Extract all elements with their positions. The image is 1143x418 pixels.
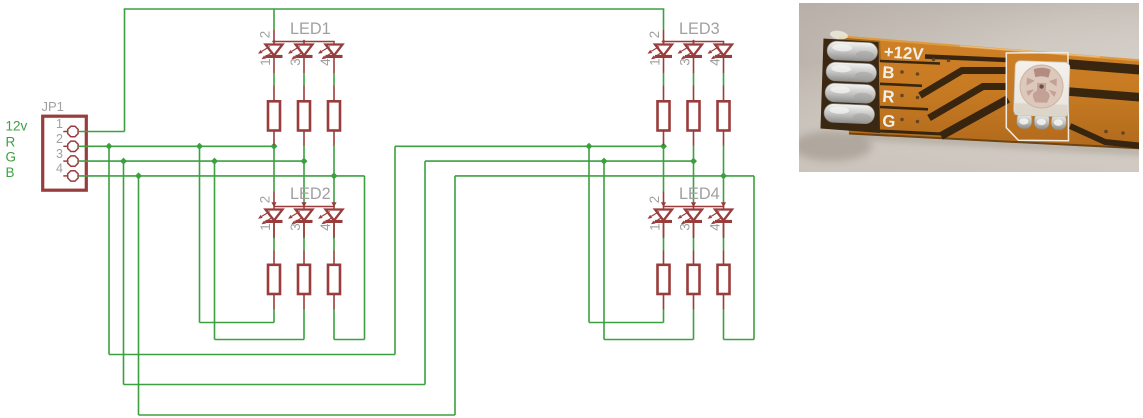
solder pads at left end of strip [821,29,881,133]
wire LED cathode to resistor (top col 304) [303,73,305,86]
wire LED cathode to resistor (top col 723.5) [723,73,725,86]
svg-text:2: 2 [258,196,273,203]
resistor R8 [298,223,310,309]
resistor R11 [688,223,700,309]
SMD 5050 RGB LED package [1013,61,1070,130]
wire LED cathode to resistor (top col 663.5) [663,73,665,86]
resistor R6 [718,86,730,146]
junction (123.5,161.1) [120,158,127,165]
connector JP1 [43,116,87,190]
wire B to LED4 anode bar [723,176,725,207]
svg-text:4: 4 [56,162,63,176]
wire G to LED4 anode bar [693,161,695,206]
resistor R2 [298,86,310,146]
wire LED cathode to resistor (bottom col 723.5) [723,236,725,251]
junction (604,161.1) [601,158,608,165]
svg-text:2: 2 [647,196,662,203]
wire LED cathode to resistor (bottom col 663.5) [663,236,665,251]
svg-text:3: 3 [288,58,303,65]
svg-text:G: G [6,150,17,165]
wire B corner to LED4 resistor [724,176,755,340]
wire B to LED2 anode bar [333,176,335,207]
RGB LED LED4 [647,185,732,238]
svg-text:4: 4 [707,223,722,231]
wire R to LED4 anode [663,146,665,206]
wire R net horizontal from JP1 pin2 [78,145,663,147]
wire 12v net: JP1 pin1 up and across top [78,9,664,132]
svg-text:1: 1 [258,223,273,230]
RGB LED LED2 [258,185,343,238]
svg-text:JP1: JP1 [42,99,64,114]
junction (109,146.3) [106,143,113,150]
svg-text:3: 3 [677,58,692,65]
via holes on strip [900,58,1125,135]
wire LED cathode to resistor (top col 274) [273,73,275,86]
svg-text:2: 2 [56,132,63,146]
pin segment 12v to LED3 anode [663,30,665,42]
wire G net horizontal from JP1 pin3 [78,160,693,162]
svg-text:LED4: LED4 [679,185,720,203]
svg-text:4: 4 [707,58,722,66]
+12V B R G labels on strip [882,42,925,131]
wire G to LED2 anode bar [303,161,305,206]
junction (138.5,175.9) [135,172,142,179]
wire LED cathode to resistor (bottom col 693.5) [693,236,695,251]
svg-text:+12V: +12V [883,42,925,64]
junction (693.5,161.1) [690,158,697,165]
svg-text:R: R [882,87,895,107]
wire G to LED4 resistor [604,161,694,339]
wire B net bottom loop [139,176,456,415]
wire LED1 resistor3 to B net [333,145,335,176]
wire LED cathode to resistor (bottom col 334) [333,236,335,251]
junction (274,146.3) [271,143,278,150]
svg-text:LED3: LED3 [679,20,720,38]
junction (304,161.1) [301,158,308,165]
wire LED cathode to resistor (bottom col 304) [303,236,305,251]
svg-text:2: 2 [647,31,662,38]
black traces on strip [880,57,1143,147]
junction (663.5,146.3) [660,143,667,150]
wire B corner to LED2 resistor [334,176,365,340]
svg-text:1: 1 [647,223,662,230]
junction (199.5,146.3) [196,143,203,150]
svg-text:2: 2 [258,31,273,38]
svg-text:4: 4 [318,58,333,66]
wire LED cathode to resistor (top col 693.5) [693,73,695,86]
JP1 label [42,99,64,114]
wire LED1 resistor2 to G net [303,145,305,161]
svg-text:3: 3 [56,147,63,161]
svg-text:1: 1 [258,58,273,65]
resistor R10 [658,223,670,309]
wire G net bottom loop [124,161,426,384]
resistor R4 [658,86,670,146]
RGB LED LED3 [647,20,732,73]
junction (214.5,161.1) [211,158,218,165]
resistor R1 [268,86,280,146]
photo of LED strip (right side) [792,3,1143,172]
wire LED3 resistor2 to G net [693,145,695,161]
svg-text:G: G [882,111,896,131]
wire R to LED4 resistor [589,146,664,322]
resistor R3 [328,86,340,146]
svg-text:12v: 12v [6,118,28,133]
wire R to LED2 resistor [200,146,275,322]
svg-text:3: 3 [677,223,692,230]
white silkscreen outline around LED [1006,53,1068,141]
wire R net bottom loop [109,146,395,354]
pin segment 12v to LED1 anode [273,30,275,42]
svg-text:B: B [6,165,15,180]
svg-text:B: B [882,63,895,83]
resistor R9 [328,223,340,309]
resistor R12 [718,223,730,309]
svg-text:R: R [6,135,16,150]
wire B net horizontal from JP1 pin4 [78,175,754,177]
RGB LED LED1 [258,20,343,73]
net labels 12v R G B [6,118,28,179]
svg-text:4: 4 [318,223,333,231]
resistor R5 [688,86,700,146]
svg-text:LED1: LED1 [290,20,331,38]
resistor R7 [268,223,280,309]
wire LED cathode to resistor (bottom col 274) [273,236,275,251]
junction (589,146.3) [586,143,593,150]
svg-text:1: 1 [56,117,63,131]
junction (723.5,175.9) [720,172,727,179]
wire LED3 resistor3 to B net [723,145,725,176]
wire G to LED2 resistor [215,161,305,339]
junction (334,175.9) [331,172,338,179]
svg-text:1: 1 [647,58,662,65]
wire LED cathode to resistor (top col 334) [333,73,335,86]
JP1 pin numbers 1-4 [56,117,63,175]
svg-text:LED2: LED2 [290,185,331,203]
wire R to LED2 anode [273,146,275,206]
svg-text:3: 3 [288,223,303,230]
